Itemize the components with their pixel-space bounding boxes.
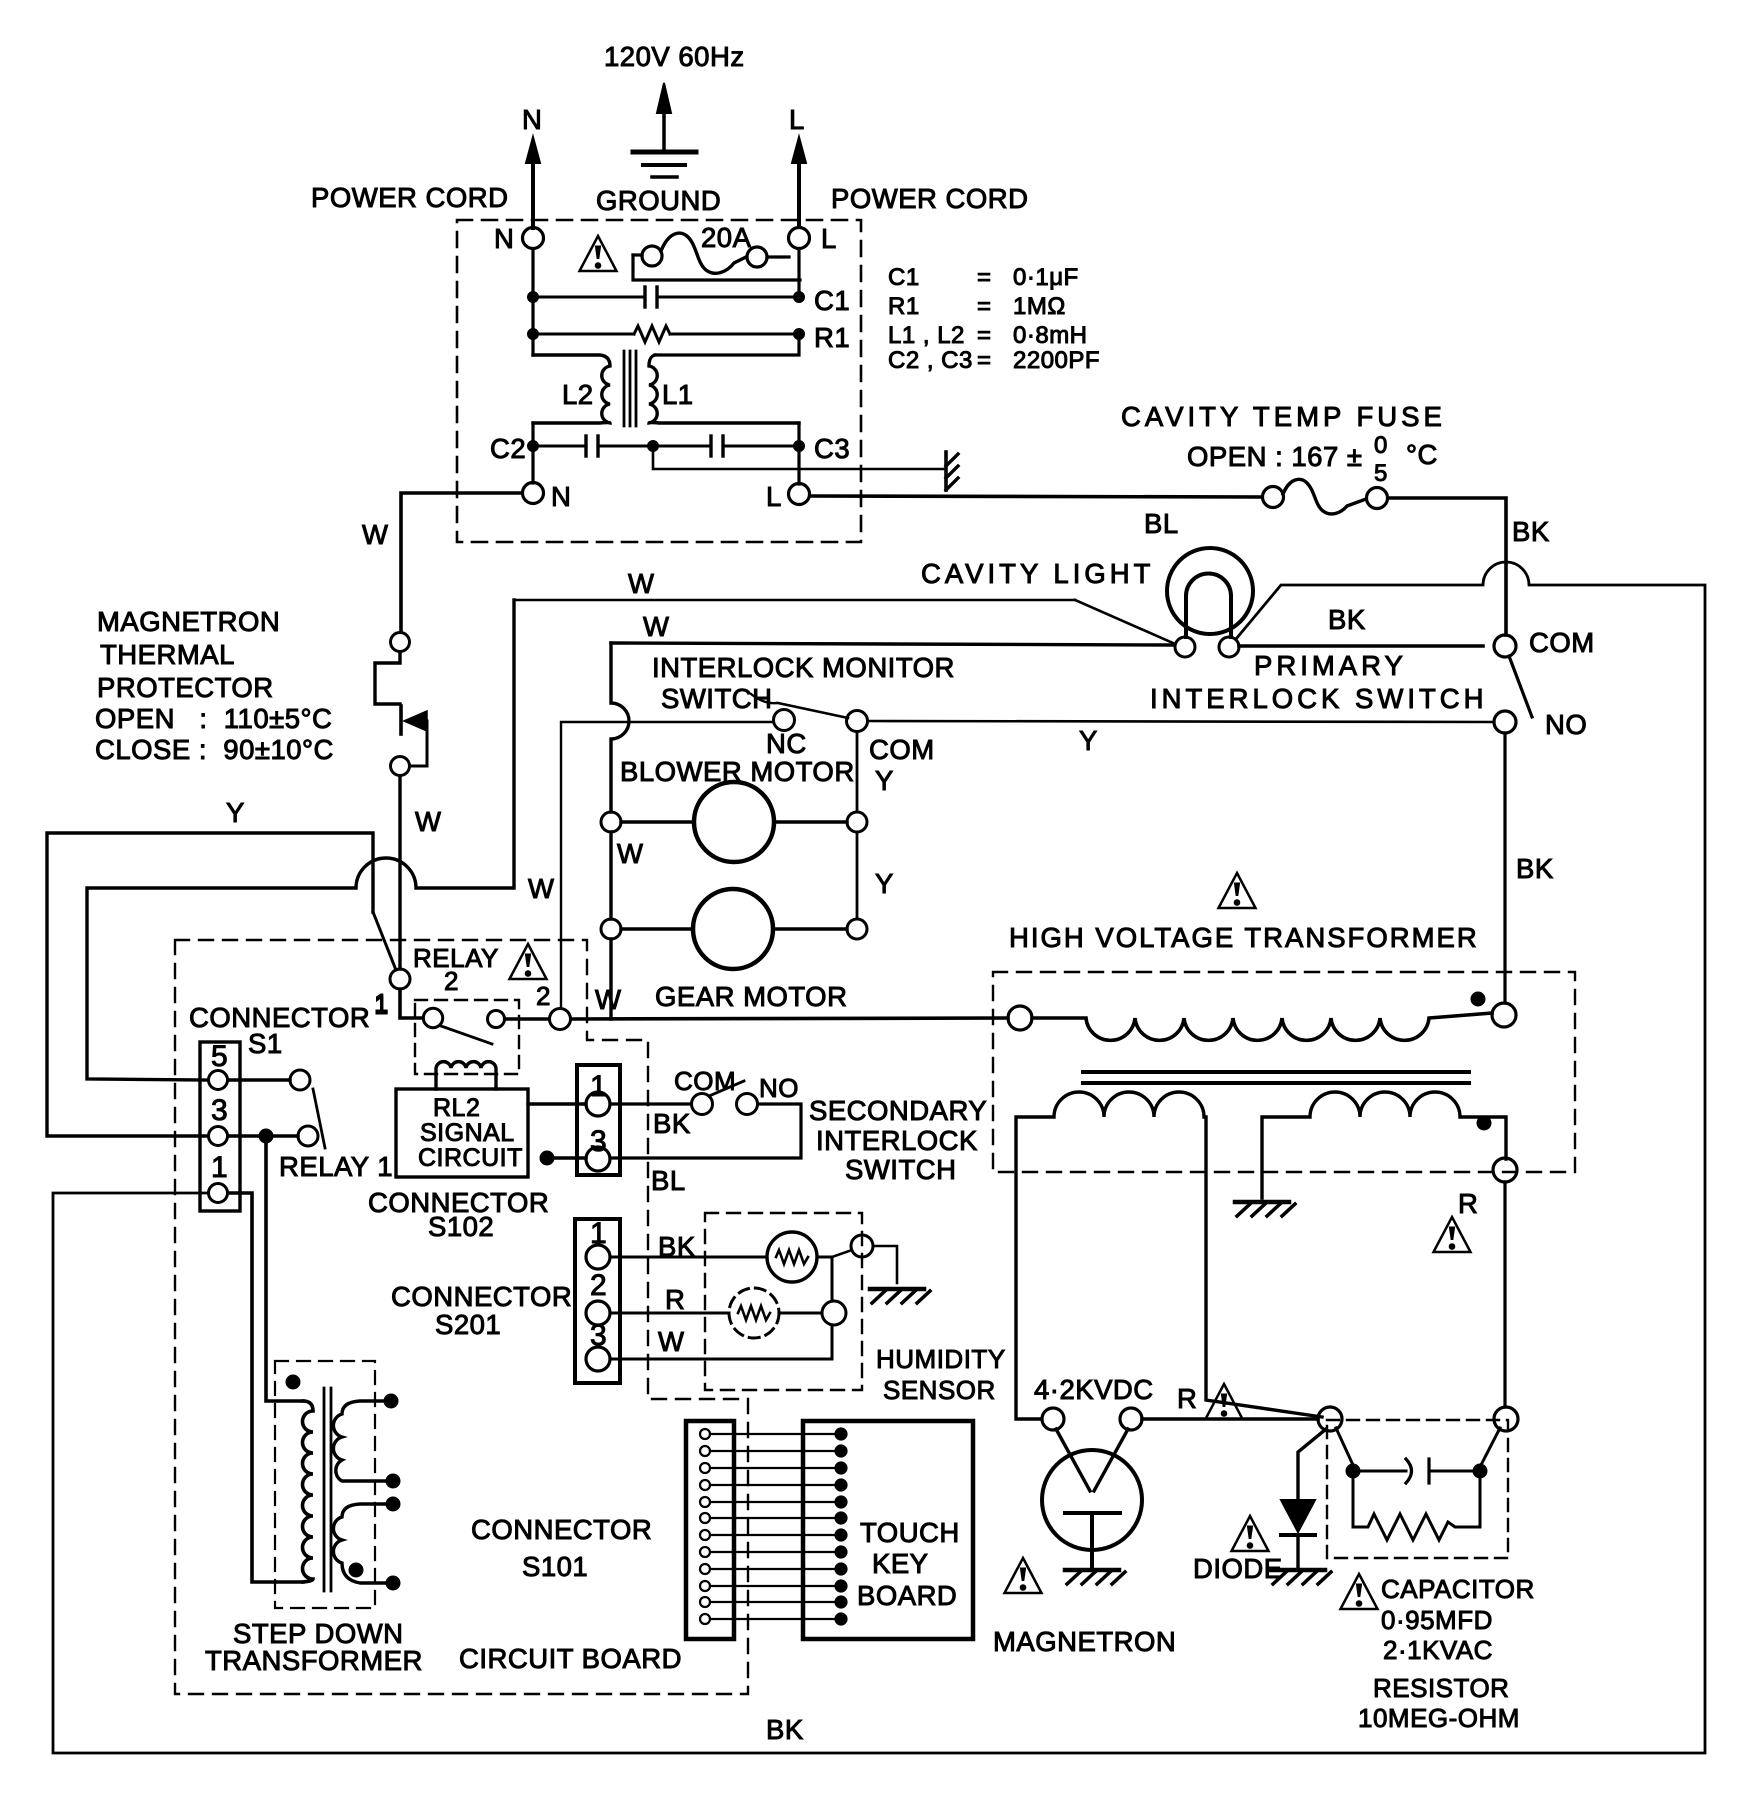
svg-text:COM: COM (1529, 627, 1595, 658)
svg-text:CONNECTOR: CONNECTOR (391, 1281, 572, 1312)
svg-text:BOARD: BOARD (857, 1580, 957, 1611)
svg-text:INTERLOCK SWITCH: INTERLOCK SWITCH (1150, 683, 1487, 714)
svg-text:BK: BK (766, 1714, 804, 1745)
svg-text:MAGNETRON: MAGNETRON (993, 1626, 1176, 1657)
svg-text:10MEG-OHM: 10MEG-OHM (1358, 1703, 1520, 1733)
svg-text:BK: BK (1328, 604, 1366, 635)
svg-text:=: = (977, 347, 992, 374)
capacitor C1 (528, 285, 851, 316)
svg-text:HUMIDITY: HUMIDITY (876, 1344, 1006, 1374)
svg-text:OPEN : 167 ±: OPEN : 167 ± (1187, 441, 1362, 472)
fuse 20A (633, 222, 800, 280)
terminal L bottom (789, 484, 810, 505)
svg-text:2200PF: 2200PF (1013, 347, 1100, 374)
svg-text:NC: NC (766, 728, 807, 759)
svg-text:NO: NO (1545, 709, 1587, 740)
HVT HV secondary winding (1262, 1092, 1517, 1198)
svg-text:3: 3 (211, 1094, 228, 1127)
wire L vertical to C1 (797, 249, 800, 297)
svg-text:COM: COM (869, 734, 935, 765)
wire pin1 to transformer primary bottom (228, 1193, 303, 1582)
svg-text:Y: Y (1079, 725, 1098, 756)
svg-text:L2: L2 (562, 379, 594, 410)
W wire from top corner down left side of motors (with hop) (611, 643, 629, 1019)
svg-text:2: 2 (444, 966, 459, 996)
svg-text:SWITCH: SWITCH (845, 1154, 956, 1185)
svg-text:=: = (977, 322, 992, 349)
svg-text:C1: C1 (814, 285, 850, 316)
svg-text:0: 0 (1374, 432, 1388, 459)
svg-text:CAVITY LIGHT: CAVITY LIGHT (921, 558, 1154, 589)
capacitor C3 (648, 433, 851, 464)
svg-text:L1 , L2: L1 , L2 (888, 322, 965, 349)
cavity temp fuse (1121, 401, 1446, 514)
svg-text:POWER CORD: POWER CORD (831, 183, 1029, 214)
svg-text:THERMAL: THERMAL (100, 639, 235, 670)
svg-text:PRIMARY: PRIMARY (1254, 650, 1407, 681)
svg-text:W: W (643, 611, 669, 642)
svg-text:2: 2 (590, 1269, 607, 1302)
mains earth ground (633, 83, 696, 177)
svg-text:Y: Y (875, 868, 894, 899)
relay blade from Y wire into node (373, 912, 396, 970)
chassis ground stub from C2/C3 midpoint (653, 452, 958, 490)
wire cavity light to primary interlock COM (1239, 644, 1483, 648)
magnetron (993, 1408, 1176, 1657)
svg-text:RESISTOR: RESISTOR (1373, 1673, 1509, 1703)
svg-text:SENSOR: SENSOR (883, 1375, 996, 1405)
wire L bottom to cavity temp fuse (810, 496, 1262, 497)
connector S102 (368, 1065, 620, 1242)
svg-text:R: R (665, 1284, 685, 1315)
svg-text:MAGNETRON: MAGNETRON (97, 606, 280, 637)
svg-text:W: W (658, 1326, 684, 1357)
warning triangle (node R) (1206, 1384, 1243, 1419)
svg-text:3: 3 (590, 1125, 607, 1158)
capacitor terminal right (1494, 1407, 1518, 1431)
wire magnetron right terminal to node (1142, 1417, 1318, 1421)
primary interlock switch (1150, 627, 1595, 740)
svg-text:S1: S1 (248, 1028, 283, 1059)
wire cavity light right terminal to outer BK loop (with hop) (53, 562, 1705, 1753)
svg-text:0·8mH: 0·8mH (1013, 322, 1088, 349)
wire NC left to relay2 junction (thin) (561, 722, 773, 1007)
svg-text:CIRCUIT BOARD: CIRCUIT BOARD (459, 1643, 682, 1674)
svg-text:L: L (789, 104, 805, 135)
svg-text:BL: BL (651, 1165, 686, 1196)
svg-text:120V 60Hz: 120V 60Hz (604, 41, 745, 72)
svg-text:2: 2 (536, 981, 551, 1011)
svg-text:1: 1 (374, 990, 389, 1020)
svg-text:SECONDARY: SECONDARY (809, 1095, 987, 1126)
wire COM down right side of motors (857, 732, 894, 919)
wire relay2 to junction (505, 1017, 549, 1021)
svg-text:PROTECTOR: PROTECTOR (97, 672, 274, 703)
chassis ground (magnetron) (1065, 1570, 1125, 1584)
capacitor C2 (490, 433, 653, 464)
wire pin5 to relay1 (228, 1078, 290, 1081)
svg-text:W: W (415, 806, 441, 837)
wire W from N terminal to thermal protector (362, 493, 522, 632)
svg-text:C2 , C3: C2 , C3 (888, 347, 973, 374)
svg-text:0·1μF: 0·1μF (1013, 264, 1079, 291)
secondary interlock switch (610, 1066, 987, 1196)
svg-text:CAPACITOR: CAPACITOR (1381, 1574, 1535, 1604)
node circle (1318, 1407, 1342, 1431)
touch key board (803, 1421, 973, 1639)
svg-text:=: = (977, 293, 992, 320)
svg-text:BL: BL (1144, 508, 1179, 539)
RL2 signal circuit (396, 1089, 528, 1177)
inductor L1 (649, 355, 799, 423)
warning triangle (relay 2) (510, 944, 547, 979)
svg-text:Y: Y (226, 797, 245, 828)
svg-text:CAVITY TEMP FUSE: CAVITY TEMP FUSE (1121, 401, 1446, 432)
svg-text:S102: S102 (428, 1211, 494, 1242)
wire L2 down to C2 row (531, 423, 534, 483)
svg-text:S101: S101 (522, 1551, 588, 1582)
svg-text:CLOSE : 90±10°C: CLOSE : 90±10°C (95, 734, 334, 765)
resistor R1 (528, 322, 851, 353)
svg-text:L: L (766, 481, 782, 512)
relay 2 (413, 943, 551, 1089)
wire node to relay 2 left contact (400, 989, 423, 1018)
connector S201 (391, 1217, 620, 1383)
Y loop wire to S1 pin3 (47, 797, 373, 1136)
wire HV secondary down to capacitor (1503, 1182, 1506, 1407)
inductor L2 (533, 355, 610, 423)
svg-text:RL2: RL2 (433, 1094, 480, 1122)
relay 1 (279, 1070, 393, 1182)
wire W to cavity light (upper branch) (514, 568, 1173, 643)
svg-text:INTERLOCK: INTERLOCK (816, 1125, 978, 1156)
chassis ground (humidity) (870, 1289, 930, 1303)
noise filter dashed enclosure (457, 220, 861, 542)
svg-text:NO: NO (759, 1073, 799, 1103)
warning triangle (filter) (580, 236, 617, 271)
wire fuse to BK corner and down to COM (1388, 498, 1506, 635)
chassis ground (diode) (1271, 1570, 1331, 1584)
high voltage transformer (993, 922, 1575, 1172)
svg-text:2·1KVAC: 2·1KVAC (1383, 1635, 1493, 1665)
wire dot to S102 pin3 (540, 1151, 586, 1165)
svg-text:CIRCUIT: CIRCUIT (418, 1144, 523, 1172)
HVT filament winding (1016, 1092, 1322, 1419)
svg-text:W: W (617, 838, 643, 869)
svg-text:GEAR MOTOR: GEAR MOTOR (655, 981, 847, 1012)
step down transformer (205, 1361, 423, 1676)
transformer core lines (623, 351, 626, 426)
svg-text:1: 1 (590, 1070, 607, 1103)
chassis ground (HVT center tap) (1235, 1202, 1295, 1216)
svg-text:BK: BK (653, 1108, 691, 1139)
wire W to cavity light (lower branch) (611, 611, 1174, 645)
wire primary NO down to HV transformer (1503, 733, 1506, 1003)
wire junction down to transformer primary top (266, 1143, 303, 1401)
svg-text:POWER CORD: POWER CORD (311, 182, 509, 213)
svg-text:N: N (551, 481, 571, 512)
svg-text:Y: Y (875, 765, 894, 796)
connector S1 (189, 1002, 370, 1211)
svg-text:W: W (628, 568, 654, 599)
svg-text:W: W (362, 519, 388, 550)
svg-text:°C: °C (1406, 439, 1438, 470)
svg-text:W: W (528, 873, 554, 904)
svg-text:N: N (522, 104, 542, 135)
svg-text:R: R (1177, 1383, 1197, 1414)
svg-text:C2: C2 (490, 433, 526, 464)
HVT primary winding (1008, 992, 1516, 1040)
svg-text:L1: L1 (662, 379, 694, 410)
wire N vertical to L2 (531, 249, 534, 355)
circuit board dashed outline (175, 940, 748, 1694)
svg-text:KEY: KEY (872, 1548, 929, 1579)
terminal N bottom (523, 483, 544, 504)
svg-text:COM: COM (674, 1066, 736, 1096)
connector S101 (471, 1421, 734, 1639)
wire junction to HV transformer primary (571, 1018, 1008, 1019)
power cord N lead arrow (522, 104, 542, 228)
cavity light (921, 548, 1253, 657)
svg-text:CONNECTOR: CONNECTOR (471, 1514, 652, 1545)
component values table (888, 264, 1100, 374)
gear motor (601, 889, 867, 1012)
svg-text:S201: S201 (435, 1309, 501, 1340)
terminal L top (789, 228, 810, 249)
capacitor assembly dashed box (1327, 1420, 1508, 1558)
wire L1 down to C3 row (797, 423, 800, 484)
junction circle (550, 1009, 571, 1030)
relay node circle (390, 969, 410, 989)
warning triangle (diode) (1232, 1516, 1269, 1551)
svg-text:20A: 20A (701, 222, 752, 253)
svg-text:W: W (595, 984, 621, 1015)
svg-text:4·2KVDC: 4·2KVDC (1034, 1374, 1154, 1405)
svg-text:C3: C3 (814, 433, 850, 464)
humidity sensor (610, 1213, 1006, 1405)
svg-text:TOUCH: TOUCH (860, 1517, 960, 1548)
warning triangle (magnetron) (1005, 1558, 1042, 1593)
power cord L lead arrow (789, 104, 806, 227)
wire R1 junction down to L1 lead (655, 334, 799, 355)
svg-text:0·95MFD: 0·95MFD (1381, 1605, 1493, 1635)
terminal N top (523, 228, 544, 249)
svg-text:C1: C1 (888, 264, 920, 291)
svg-text:INTERLOCK MONITOR: INTERLOCK MONITOR (652, 652, 955, 683)
magnetron thermal protector (95, 606, 427, 776)
svg-text:5: 5 (211, 1040, 228, 1073)
svg-text:R1: R1 (888, 293, 920, 320)
svg-text:BK: BK (1516, 853, 1554, 884)
W branch wire (y=888) with hop over thermal wire (87, 600, 514, 1080)
capacitor internal (1336, 1428, 1500, 1540)
warning triangle (capacitor) (1341, 1574, 1378, 1609)
wire pin3 to relay1 bottom with junction (228, 1129, 298, 1143)
diode (1193, 1429, 1326, 1584)
svg-text:L: L (821, 223, 837, 254)
wire RL2 to S102 pin1 (528, 1102, 586, 1105)
svg-text:=: = (977, 264, 992, 291)
svg-text:R1: R1 (814, 322, 850, 353)
blower motor (601, 756, 867, 869)
connector S101 pin wires to touch key board (700, 1429, 847, 1625)
svg-text:N: N (494, 223, 514, 254)
svg-text:R: R (1458, 1188, 1478, 1219)
warning triangle (R) (1434, 1217, 1471, 1252)
interlock monitor switch (652, 652, 955, 765)
capacitor labels (1358, 1574, 1535, 1733)
svg-text:GROUND: GROUND (596, 185, 721, 216)
svg-text:5: 5 (1374, 460, 1388, 487)
wire monitor COM to primary NO (868, 721, 1494, 722)
svg-text:SIGNAL: SIGNAL (420, 1119, 515, 1147)
HVT core (1083, 1070, 1469, 1074)
svg-text:HIGH VOLTAGE TRANSFORMER: HIGH VOLTAGE TRANSFORMER (1009, 922, 1479, 953)
svg-text:OPEN : 110±5°C: OPEN : 110±5°C (95, 703, 332, 734)
warning triangle (HVT) (1219, 873, 1256, 908)
svg-text:1MΩ: 1MΩ (1013, 293, 1066, 320)
wire thermal protector down to relay node (398, 776, 401, 969)
svg-text:1: 1 (211, 1151, 228, 1184)
svg-text:RELAY 1: RELAY 1 (279, 1151, 393, 1182)
svg-text:TRANSFORMER: TRANSFORMER (205, 1645, 423, 1676)
svg-text:BK: BK (1512, 516, 1550, 547)
